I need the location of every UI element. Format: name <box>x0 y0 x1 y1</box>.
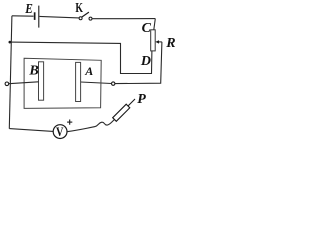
switch K <box>79 12 92 20</box>
capacitor plate B <box>39 62 44 100</box>
container box <box>24 58 101 108</box>
wavy wire voltmeter to pencil <box>67 120 115 132</box>
terminal node right <box>112 82 115 85</box>
capacitor plate A <box>76 62 81 101</box>
wire between battery and switch <box>39 16 79 18</box>
wire down to rheostat top C <box>154 19 156 30</box>
svg-text:A: A <box>84 64 93 78</box>
wire top-left segment <box>12 15 34 17</box>
wire switch to top-right corner <box>92 18 155 20</box>
plus mark <box>67 120 72 125</box>
left rail wire <box>9 16 12 129</box>
wire from wiper down <box>115 42 162 84</box>
svg-text:E: E <box>24 2 32 17</box>
voltmeter V <box>53 124 67 139</box>
wire from D down-left-up to left rail <box>10 42 152 73</box>
wire node to plate A <box>81 82 112 84</box>
wiper arrow of R <box>155 40 162 43</box>
pencil lead P <box>113 99 135 121</box>
rheostat R body <box>151 30 156 51</box>
svg-text:P: P <box>137 92 146 107</box>
svg-text:D: D <box>140 54 151 69</box>
svg-text:B: B <box>28 64 38 79</box>
battery E <box>34 6 39 28</box>
wire node to plate B <box>9 82 39 84</box>
terminal node left <box>5 82 9 86</box>
svg-text:V: V <box>56 124 64 139</box>
svg-text:C: C <box>142 21 152 36</box>
svg-text:R: R <box>165 36 175 51</box>
bottom wire to voltmeter <box>9 129 53 132</box>
junction dot on left rail <box>9 41 12 44</box>
svg-text:K: K <box>75 1 83 16</box>
